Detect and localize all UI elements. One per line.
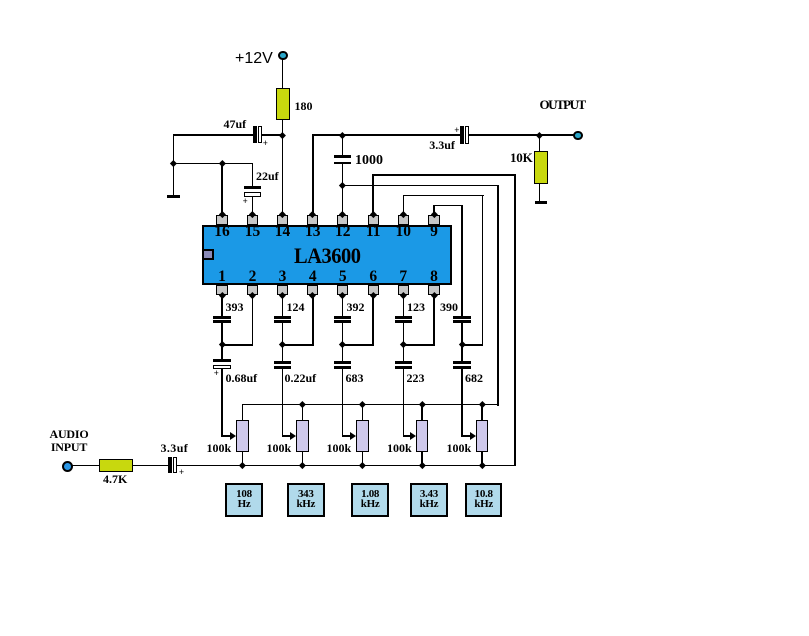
op-amp IC U1 LA3600 body <box>202 225 453 286</box>
wire pin 6 jog to column junction <box>342 344 374 346</box>
wire pin 6 down <box>372 294 374 346</box>
node junction top rail / C 1000 <box>339 132 346 139</box>
pin number 4 <box>298 269 328 285</box>
capacitor C 1000 <box>334 155 352 158</box>
wire pin 10 vertical down <box>482 195 484 346</box>
pin number 6 <box>358 269 388 285</box>
wire pot 4 top stub <box>421 404 423 421</box>
pin number 15 <box>238 224 268 240</box>
pin number 12 <box>328 224 358 240</box>
label value 100K pot 3 <box>327 442 352 454</box>
wiper arrow pot 2 <box>290 432 296 440</box>
capacitor C 223 <box>395 361 412 364</box>
node pot 3 top rail junction <box>359 401 366 408</box>
wire junction to C 682 <box>461 344 463 362</box>
pin 8 stub (bottom) <box>428 285 439 295</box>
node junction left branch / pin16 wire <box>170 160 177 167</box>
wire left branch down to ground <box>173 134 175 195</box>
label value 124 <box>287 301 305 313</box>
capacitor C 124 <box>274 316 291 319</box>
ground left <box>167 195 181 198</box>
pin number 10 <box>388 224 418 240</box>
label value 682 <box>465 372 483 384</box>
label value 100K pot 2 <box>267 442 292 454</box>
capacitor C 393 <box>213 316 230 319</box>
wire pot 5 top stub <box>481 404 483 421</box>
capacitor C 3.3uf input <box>168 457 172 473</box>
wire wiper feed pot 1 <box>221 435 232 437</box>
label value 100K pot 4 <box>387 442 412 454</box>
pin number 7 <box>388 269 418 285</box>
pin 9 stub (top) <box>428 215 439 225</box>
pin 11 stub (top) <box>368 215 379 225</box>
wire C 47uf to junction <box>261 134 283 136</box>
ground under R 10K <box>535 201 546 204</box>
wire pin 8 jog to column junction <box>403 344 435 346</box>
label frequency box 1.08 kHz <box>351 483 389 517</box>
wire wiper feed pot 5 <box>461 435 472 437</box>
wire pin 10 jog to column E junction <box>461 344 483 346</box>
node junction R180 / C 47uf / pin14 <box>279 132 286 139</box>
label frequency box 3.43 kHz <box>410 483 448 517</box>
resistor R 180 <box>276 88 290 120</box>
wiper arrow pot 5 <box>470 432 476 440</box>
label value 390 <box>440 301 458 313</box>
wire C 22uf to pin 15 <box>252 196 254 216</box>
wire C 683 to pot 3 wiper <box>342 368 344 436</box>
capacitor C 683 <box>334 361 351 364</box>
node OUTPUT terminal <box>573 131 583 141</box>
label AUDIO INPUT <box>44 428 94 453</box>
wire pin 4 down <box>312 294 314 346</box>
wire pin 1 down to C 393 <box>221 294 223 318</box>
wire from +12V terminal down to R 180 <box>282 59 284 90</box>
capacitor C 22uf <box>244 186 261 189</box>
pin 14 stub (top) <box>277 215 288 225</box>
pin number 14 <box>268 224 298 240</box>
wire junction to C 0.68uf <box>221 344 223 360</box>
wire junction to C 0.22uf <box>282 344 284 362</box>
wire pin 8 down <box>433 294 435 346</box>
node pot 5 bottom rail junction <box>479 462 486 469</box>
label value 100K pot 1 <box>207 442 232 454</box>
label value 3.3uf input <box>161 442 189 454</box>
wire pot top rail <box>242 404 499 406</box>
node pot 3 bottom rail junction <box>359 462 366 469</box>
wire pin 5 down to C 392 <box>342 294 344 318</box>
wire to pin 16 and C 22uf <box>173 163 254 165</box>
label LA3600 <box>210 245 443 267</box>
label +12V <box>235 51 273 67</box>
label value 223 <box>407 372 425 384</box>
pin 15 stub (top) <box>247 215 258 225</box>
wire C 124 to junction <box>282 322 284 346</box>
wire C 1000 bottom to rail <box>342 164 344 186</box>
wire C 0.22uf to pot 2 wiper <box>282 368 284 436</box>
wiper arrow pot 1 <box>230 432 236 440</box>
wire pot 2 bottom stub <box>302 451 304 466</box>
label value 123 <box>407 301 425 313</box>
wire input terminal to R 4.7K <box>71 465 100 467</box>
wire C 393 to junction <box>221 322 223 346</box>
wire wiper feed pot 3 <box>342 435 353 437</box>
wire left feed to C 47uf <box>173 134 254 136</box>
pin number 1 <box>207 269 237 285</box>
wire pin 9 vertical down to C 390 <box>461 205 463 318</box>
wire pin 2 down <box>252 294 254 346</box>
pin 6 stub (bottom) <box>368 285 379 295</box>
wire pot 4 bottom stub <box>421 451 423 466</box>
label value 683 <box>346 372 364 384</box>
wire C 390 to junction <box>461 322 463 346</box>
pin 7 stub (bottom) <box>398 285 409 295</box>
resistor R 10K <box>534 151 548 185</box>
pin 5 stub (bottom) <box>337 285 348 295</box>
capacitor C 390 <box>453 316 470 319</box>
node +12V terminal <box>278 51 288 61</box>
label frequency box 108 Hz <box>225 483 263 517</box>
pin 4 stub (bottom) <box>307 285 318 295</box>
label value 3.3uf output <box>429 139 455 151</box>
node column 5 junction <box>459 341 466 348</box>
label value 47uf <box>224 118 247 130</box>
node junction C1000 / pin 12 rail <box>339 182 346 189</box>
wire pot 5 bottom stub <box>481 451 483 466</box>
wire C 0.68uf to pot 1 wiper <box>221 368 223 437</box>
label value 0.22uf <box>285 372 317 384</box>
pin 13 stub (top) <box>307 215 318 225</box>
wire C 223 to pot 4 wiper <box>403 368 405 436</box>
pin 1 stub (bottom) <box>216 285 227 295</box>
node junction pin 16 tap <box>219 160 226 167</box>
wire pin 13 up to top rail <box>312 134 314 215</box>
wire pin 9 up to its rail <box>433 205 435 216</box>
pin number 8 <box>419 269 449 285</box>
label frequency box 343 kHz <box>287 483 325 517</box>
node pot 4 bottom rail junction <box>419 462 426 469</box>
wire pin 2 jog to column junction <box>221 344 253 346</box>
capacitor C 123 <box>395 316 412 319</box>
node junction output / R 10K <box>536 132 543 139</box>
node column 3 junction <box>339 341 346 348</box>
wire junction to C 683 <box>342 344 344 362</box>
wire pin 10 up to its rail <box>403 195 405 216</box>
label value 4.7K <box>103 473 127 485</box>
wire pin 3 down to C 124 <box>282 294 284 318</box>
wire junction to C 223 <box>403 344 405 362</box>
node pot 4 top rail junction <box>419 401 426 408</box>
wire R 4.7K to C 3.3uf input <box>132 465 169 467</box>
label OUTPUT <box>540 98 585 112</box>
label value 1000 <box>355 154 383 168</box>
wire pin 10 rail <box>403 195 484 197</box>
label frequency box 10.8 kHz <box>465 483 503 517</box>
wire C 392 to junction <box>342 322 344 346</box>
wire to C 1000 top <box>342 134 344 156</box>
wire pin 12 rail <box>342 185 499 187</box>
potentiometer VR2 100K <box>296 420 309 452</box>
wire pin 4 jog to column junction <box>282 344 314 346</box>
wire bottom rail to pin 11 vertical <box>177 465 517 467</box>
pin number 9 <box>419 224 449 240</box>
wiper arrow pot 3 <box>350 432 356 440</box>
capacitor C 47uf <box>253 126 257 143</box>
node column 2 junction <box>279 341 286 348</box>
capacitor C 0.68uf <box>213 359 230 362</box>
wire pin 12 vertical to pot top rail <box>497 185 499 406</box>
pin 10 stub (top) <box>398 215 409 225</box>
wire down to pin 16 <box>221 163 223 216</box>
pin 1 indicator mark <box>202 249 214 260</box>
pin 2 stub (bottom) <box>247 285 258 295</box>
wire pot 3 top stub <box>362 404 364 421</box>
pin number 2 <box>238 269 268 285</box>
potentiometer VR1 100K <box>236 420 249 452</box>
label value 392 <box>347 301 365 313</box>
pin 16 stub (top) <box>216 215 227 225</box>
capacitor C 0.22uf <box>274 361 291 364</box>
label value 0.68uf <box>226 372 258 384</box>
capacitor C 3.3uf output <box>460 126 463 144</box>
potentiometer VR4 100K <box>416 420 429 452</box>
wire R 10K to ground <box>539 183 541 202</box>
wire C 682 to pot 5 wiper <box>461 368 463 436</box>
wire top rail pin13 to C 3.3uf <box>312 134 461 136</box>
capacitor C 392 <box>334 316 351 319</box>
wire pot 3 bottom stub <box>362 451 364 466</box>
pin number 5 <box>328 269 358 285</box>
capacitor C 682 <box>453 361 470 364</box>
wire C 3.3uf to output terminal <box>469 134 575 136</box>
wire pin 11 up to its rail <box>372 174 374 215</box>
wire pot 1 bottom stub <box>242 451 244 466</box>
wire pot 2 top stub <box>302 404 304 421</box>
wire down to C 22uf <box>252 163 254 187</box>
wire junction down to pin 12 <box>342 185 344 216</box>
node pot 2 top rail junction <box>299 401 306 408</box>
wire wiper feed pot 4 <box>403 435 413 437</box>
node AUDIO INPUT terminal <box>62 461 73 472</box>
potentiometer VR3 100K <box>356 420 369 452</box>
label value 10K <box>510 151 533 165</box>
wire C 123 to junction <box>403 322 405 346</box>
potentiometer VR5 100K <box>476 420 489 452</box>
wire pin 7 down to C 123 <box>403 294 405 318</box>
node column 1 junction <box>219 341 226 348</box>
node pot 1 bottom rail junction <box>239 462 246 469</box>
label value 393 <box>226 301 244 313</box>
label value 22uf <box>256 170 279 182</box>
pin number 13 <box>298 224 328 240</box>
pin 3 stub (bottom) <box>277 285 288 295</box>
node pot 5 top rail junction <box>479 401 486 408</box>
pin number 16 <box>207 224 237 240</box>
pin number 3 <box>268 269 298 285</box>
wire pin 9 rail <box>433 205 463 207</box>
node pot 2 bottom rail junction <box>299 462 306 469</box>
label value 100K pot 5 <box>447 442 472 454</box>
node column 4 junction <box>400 341 407 348</box>
wiper arrow pot 4 <box>410 432 416 440</box>
wire pot 1 top stub <box>242 404 244 421</box>
resistor R 4.7K <box>99 459 133 472</box>
wire wiper feed pot 2 <box>282 435 293 437</box>
wire right outer vertical pin11 to bottom rail <box>514 174 516 466</box>
pin 12 stub (top) <box>337 215 348 225</box>
pin number 11 <box>358 224 388 240</box>
wire pin 11 rail <box>372 174 516 176</box>
label value 180 <box>295 100 313 112</box>
wire down to R 10K <box>539 134 541 151</box>
wire R 180 bottom to IC pin 14 <box>282 119 284 215</box>
